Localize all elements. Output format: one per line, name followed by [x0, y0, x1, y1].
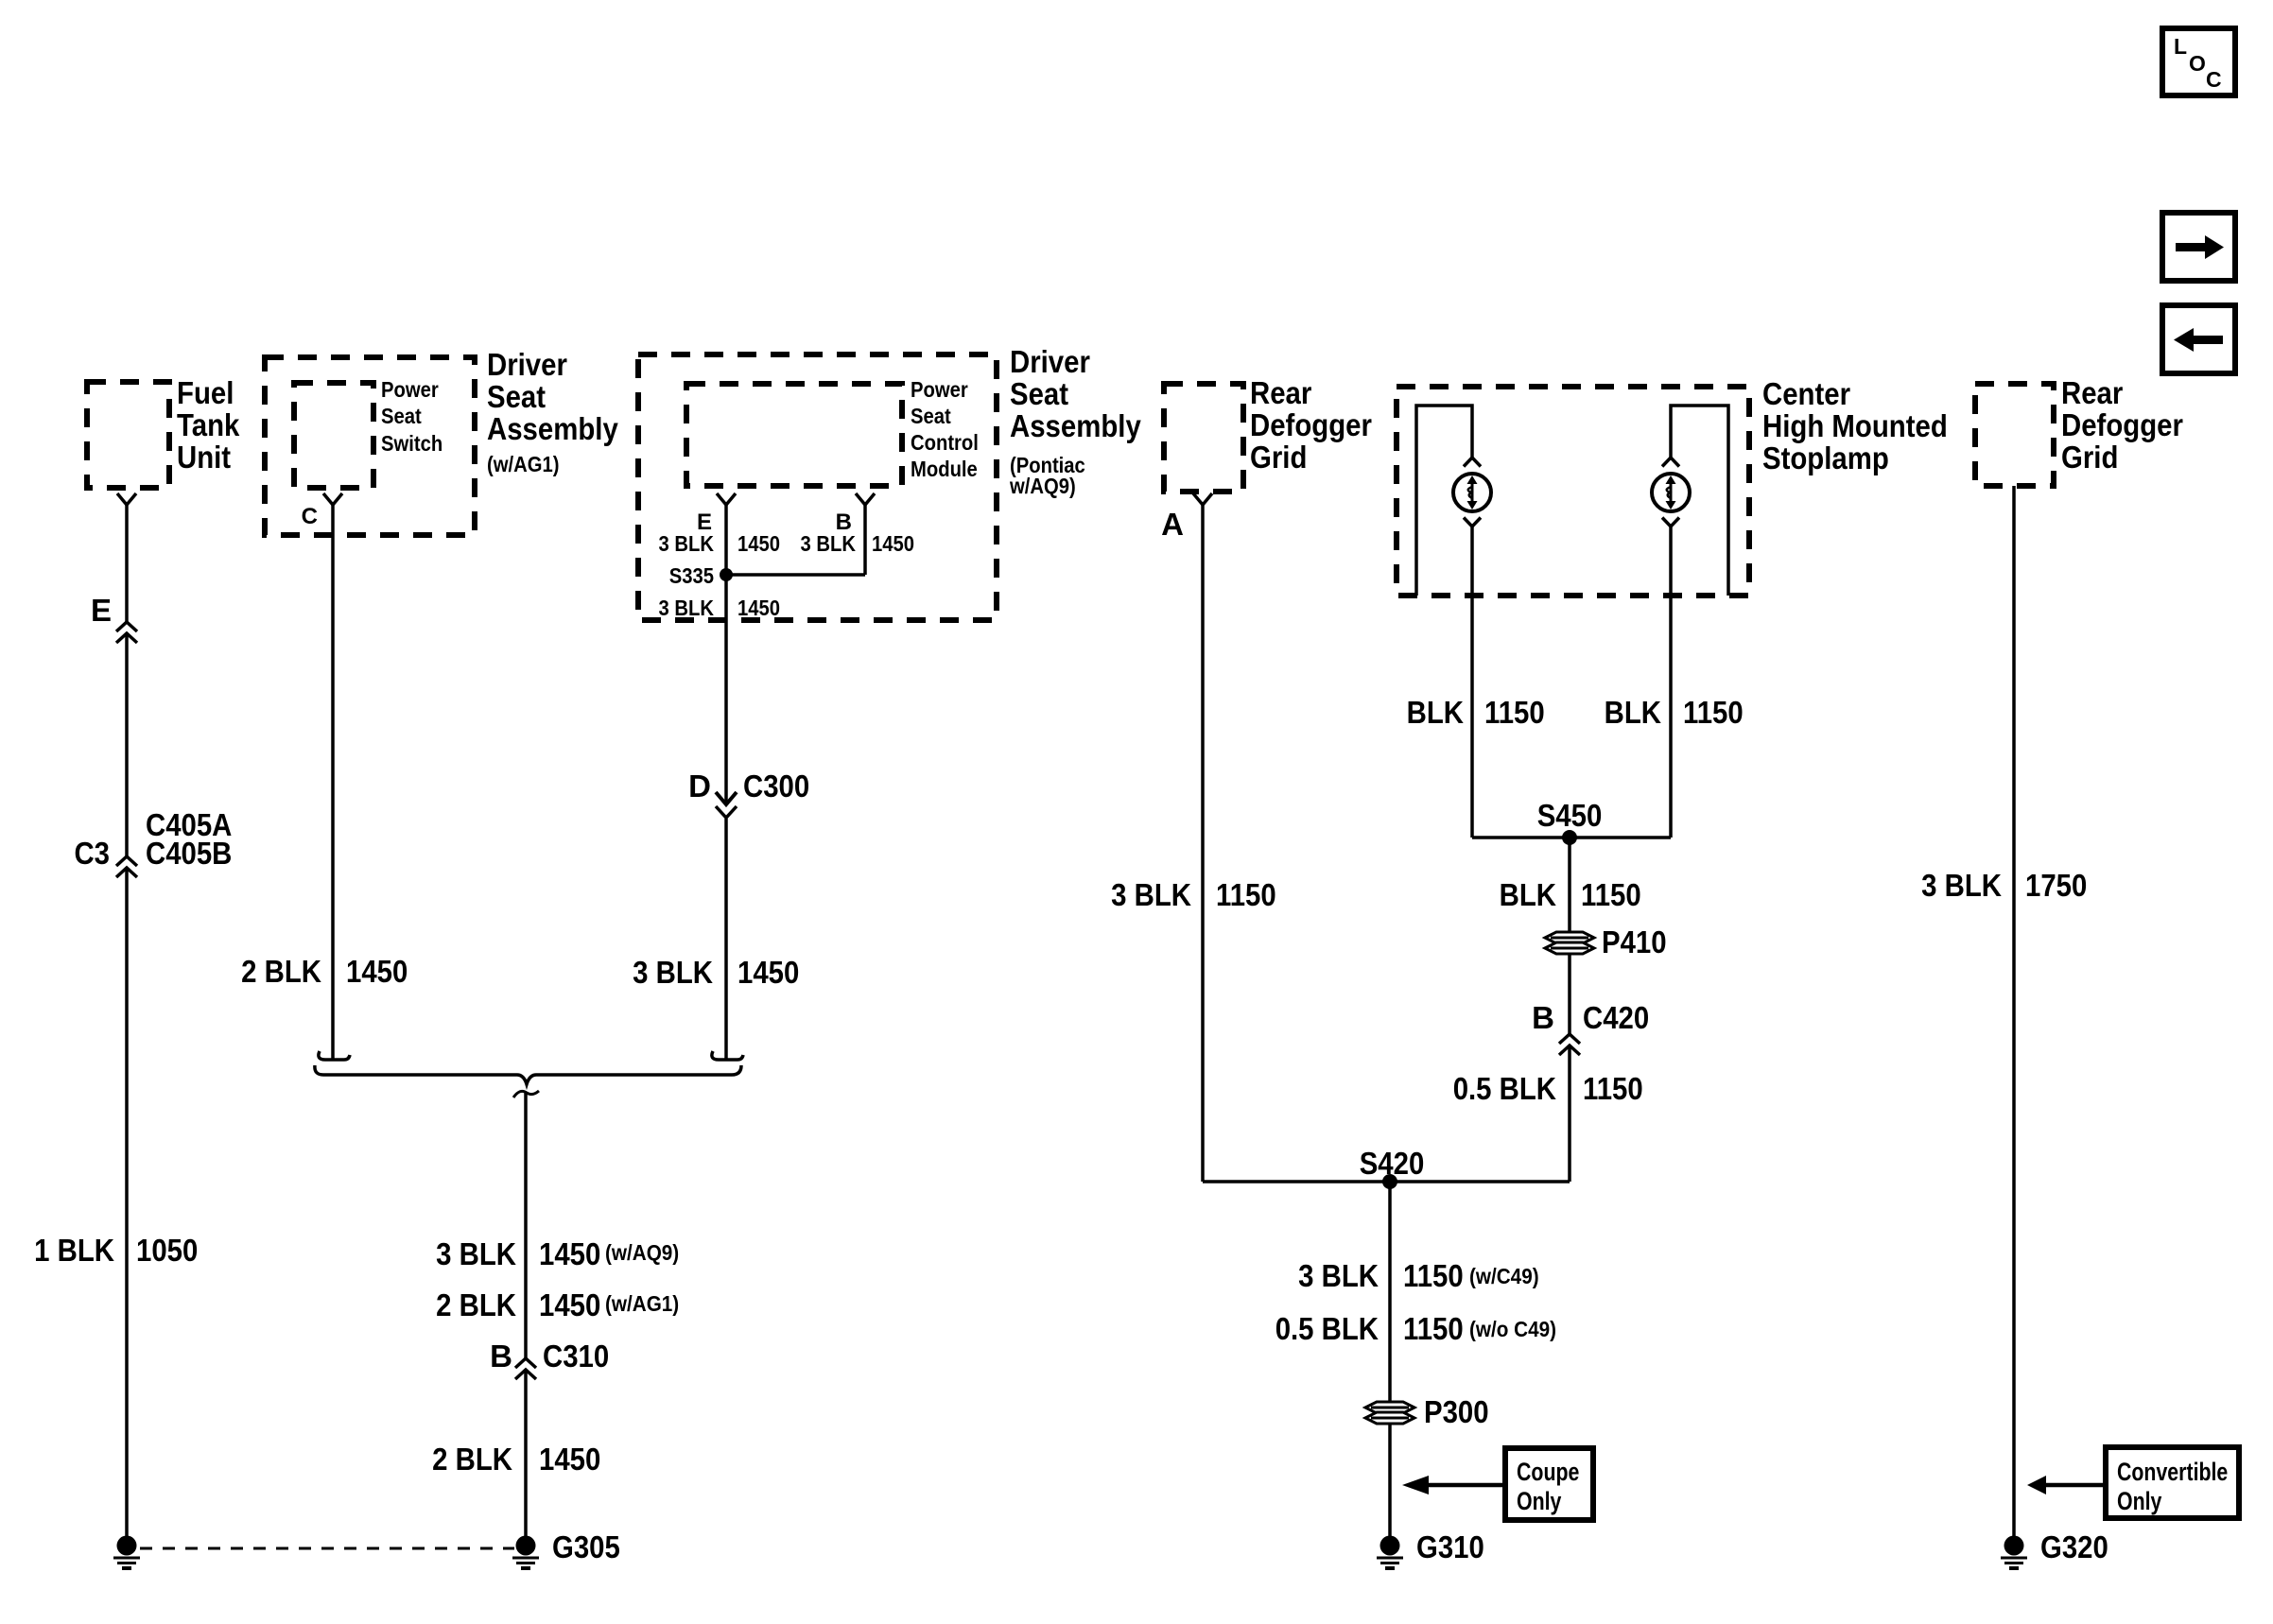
connector C300 (pin D) — [688, 769, 809, 818]
svg-text:(w/C49): (w/C49) — [1469, 1264, 1539, 1288]
svg-text:P300: P300 — [1424, 1394, 1489, 1429]
wire label 2 BLK 1450 (w/AG1) — [436, 1287, 679, 1322]
svg-text:C310: C310 — [543, 1339, 609, 1373]
svg-text:2 BLK: 2 BLK — [436, 1287, 516, 1322]
svg-text:P410: P410 — [1602, 924, 1667, 959]
wire end hook (switch leg) — [319, 1051, 350, 1060]
svg-text:S450: S450 — [1537, 798, 1603, 833]
svg-text:C300: C300 — [743, 769, 809, 803]
svg-text:O: O — [2189, 51, 2206, 76]
svg-text:1450: 1450 — [539, 1442, 600, 1477]
svg-text:Module: Module — [911, 457, 978, 481]
pin B of control module — [836, 493, 875, 535]
svg-text:B: B — [1532, 1000, 1554, 1035]
dashed ground tie wire — [140, 1547, 514, 1550]
wire S420 to P300 — [1388, 1182, 1392, 1402]
wire switch C to splice brace — [331, 505, 335, 1060]
svg-text:G305: G305 — [552, 1529, 620, 1564]
svg-text:(w/AG1): (w/AG1) — [487, 452, 560, 476]
pin E of fuel tank unit — [117, 493, 136, 505]
left stoplamp bulb — [1453, 458, 1491, 527]
wire label 2 BLK 1450 — [432, 1442, 600, 1477]
splice S335 — [669, 563, 733, 588]
svg-text:(w/AG1): (w/AG1) — [605, 1291, 679, 1316]
svg-text:1450: 1450 — [539, 1287, 600, 1322]
svg-text:1150: 1150 — [1403, 1311, 1464, 1346]
svg-text:Driver: Driver — [1010, 344, 1090, 379]
left-arrow legend box — [2162, 305, 2235, 373]
wire fuel tank to connector E — [125, 505, 129, 622]
LOC legend box — [2162, 28, 2235, 95]
wire P300 to G310 — [1388, 1424, 1392, 1537]
pin E of control module — [697, 493, 736, 535]
grommet P410 — [1545, 924, 1667, 959]
wire C420 to S420 — [1568, 1046, 1571, 1182]
splice S450 — [1472, 798, 1671, 845]
svg-text:3 BLK: 3 BLK — [633, 955, 713, 990]
svg-text:BLK: BLK — [1605, 695, 1662, 730]
wire label 3 BLK 1450 (below S335) — [659, 596, 781, 620]
right stoplamp bulb — [1652, 458, 1690, 527]
svg-text:Assembly: Assembly — [487, 411, 618, 446]
svg-text:3 BLK: 3 BLK — [1921, 868, 2002, 903]
wire label 2 BLK 1450 — [241, 954, 408, 989]
center high mounted stoplamp box — [1397, 376, 1948, 596]
svg-text:0.5 BLK: 0.5 BLK — [1275, 1311, 1379, 1346]
svg-text:Power: Power — [381, 377, 439, 402]
svg-text:1450: 1450 — [872, 531, 914, 556]
svg-text:BLK: BLK — [1407, 695, 1465, 730]
wire C405 to ground G305 left leg — [125, 868, 129, 1537]
wire left lamp to S450 — [1470, 527, 1474, 838]
svg-text:B: B — [490, 1339, 512, 1373]
svg-text:0.5 BLK: 0.5 BLK — [1453, 1071, 1556, 1106]
svg-text:1050: 1050 — [136, 1233, 198, 1268]
ground G305 — [512, 1529, 620, 1568]
svg-text:Defogger: Defogger — [2061, 407, 2183, 442]
svg-text:Defogger: Defogger — [1250, 407, 1372, 442]
svg-text:Seat: Seat — [487, 379, 546, 414]
svg-text:C3: C3 — [75, 836, 111, 871]
svg-text:(w/o C49): (w/o C49) — [1469, 1317, 1556, 1341]
svg-text:Switch: Switch — [381, 431, 442, 456]
svg-text:Assembly: Assembly — [1010, 408, 1141, 443]
svg-text:1 BLK: 1 BLK — [34, 1233, 114, 1268]
svg-text:Power: Power — [911, 377, 968, 402]
wire end hook (module leg) — [712, 1051, 743, 1060]
svg-text:3 BLK: 3 BLK — [659, 596, 715, 620]
wire S335 to C300 — [724, 575, 728, 804]
svg-text:Seat: Seat — [1010, 376, 1068, 411]
svg-text:3 BLK: 3 BLK — [1298, 1258, 1379, 1293]
svg-text:Grid: Grid — [2061, 440, 2118, 475]
svg-text:Driver: Driver — [487, 347, 567, 382]
wire right lamp to S450 — [1669, 527, 1673, 838]
wire C300 to splice brace — [724, 819, 728, 1060]
svg-text:S420: S420 — [1360, 1146, 1425, 1181]
convertible only arrow — [2027, 1476, 2106, 1494]
inline connector at E — [116, 622, 137, 631]
connector C405 (C3) — [75, 807, 233, 877]
svg-text:w/AQ9): w/AQ9) — [1009, 474, 1076, 498]
coupe only arrow — [1402, 1476, 1505, 1494]
svg-text:C: C — [2206, 67, 2222, 92]
svg-text:Seat: Seat — [381, 404, 422, 428]
svg-text:S335: S335 — [669, 563, 714, 588]
svg-text:E: E — [91, 593, 112, 628]
wire label 3 BLK 1450 (E leg) — [659, 531, 781, 556]
wire label BLK 1150 (right lamp) — [1605, 695, 1744, 730]
wire C310 to G305 — [524, 1371, 528, 1537]
wire E connector to C405 — [125, 633, 129, 856]
wire label 3 BLK 1450 — [633, 955, 799, 990]
svg-text:Rear: Rear — [1250, 375, 1311, 410]
svg-text:2 BLK: 2 BLK — [432, 1442, 512, 1477]
svg-text:Fuel: Fuel — [177, 375, 234, 410]
brace wire curl — [513, 1091, 539, 1097]
wire label BLK 1150 — [1500, 877, 1641, 912]
wire label 1 BLK 1050 — [34, 1233, 198, 1268]
svg-text:Convertible: Convertible — [2117, 1458, 2228, 1486]
svg-text:3 BLK: 3 BLK — [659, 531, 715, 556]
wire label 3 BLK 1450 (w/AQ9) — [436, 1236, 679, 1271]
wire B leg horizontal to S335 — [726, 573, 865, 577]
splice brace — [315, 1065, 741, 1084]
wire pin E to S335 — [724, 505, 728, 575]
svg-text:Only: Only — [2117, 1487, 2161, 1515]
svg-text:Grid: Grid — [1250, 440, 1307, 475]
wire label 0.5 BLK 1150 (w/o C49) — [1275, 1311, 1556, 1346]
svg-text:2 BLK: 2 BLK — [241, 954, 321, 989]
svg-text:C405B: C405B — [146, 836, 232, 871]
svg-text:3 BLK: 3 BLK — [1111, 877, 1191, 912]
wire label 3 BLK 1150 — [1111, 877, 1276, 912]
pin C of power seat switch — [302, 493, 342, 529]
svg-text:1150: 1150 — [1583, 1071, 1643, 1106]
fuel tank unit box — [87, 375, 240, 488]
power seat switch box — [294, 377, 442, 488]
rear defogger grid box (left) — [1164, 375, 1372, 492]
left lamp internal loop — [1416, 406, 1472, 596]
svg-text:Unit: Unit — [177, 440, 231, 475]
svg-text:Rear: Rear — [2061, 375, 2123, 410]
right lamp internal loop — [1671, 406, 1728, 596]
wire defogger A to S420 — [1201, 505, 1205, 1182]
svg-text:1450: 1450 — [737, 955, 799, 990]
svg-text:Tank: Tank — [177, 407, 240, 442]
svg-text:1150: 1150 — [1683, 695, 1744, 730]
svg-text:1450: 1450 — [737, 531, 780, 556]
wire label BLK 1150 (left lamp) — [1407, 695, 1545, 730]
svg-text:1450: 1450 — [539, 1236, 600, 1271]
svg-text:1450: 1450 — [346, 954, 408, 989]
ground G310 — [1377, 1529, 1484, 1568]
svg-text:BLK: BLK — [1500, 877, 1557, 912]
wire brace to C310 — [524, 1093, 528, 1358]
rear defogger grid box (right) — [1975, 375, 2183, 486]
svg-text:Coupe: Coupe — [1517, 1458, 1579, 1486]
svg-text:1150: 1150 — [1216, 877, 1276, 912]
driver seat assembly (w/AG1) box — [265, 347, 618, 535]
svg-text:3 BLK: 3 BLK — [801, 531, 857, 556]
ground G320 — [2001, 1529, 2108, 1568]
svg-text:1150: 1150 — [1581, 877, 1641, 912]
svg-text:3 BLK: 3 BLK — [436, 1236, 516, 1271]
svg-text:(w/AQ9): (w/AQ9) — [605, 1240, 679, 1265]
connector C310 (pin B) — [490, 1339, 609, 1379]
svg-text:Control: Control — [911, 430, 979, 455]
wire right defogger to G320 — [2012, 486, 2016, 1537]
wire S450 to P410 — [1568, 838, 1571, 932]
svg-text:G320: G320 — [2040, 1529, 2108, 1564]
svg-text:A: A — [1161, 507, 1184, 542]
wire label 3 BLK 1450 (B leg) — [801, 531, 915, 556]
wire P410 to C420 — [1568, 954, 1571, 1034]
power seat control module box — [686, 377, 979, 486]
svg-text:D: D — [688, 769, 711, 803]
driver seat assembly (Pontiac w/AQ9) box — [638, 344, 1141, 620]
svg-text:Center: Center — [1762, 376, 1850, 411]
svg-text:1450: 1450 — [737, 596, 780, 620]
ground (fuel tank leg of G305) — [113, 1536, 140, 1569]
svg-text:High Mounted: High Mounted — [1762, 408, 1948, 443]
right-arrow legend box — [2162, 213, 2235, 281]
wire label 3 BLK 1750 — [1921, 868, 2087, 903]
svg-text:C: C — [302, 504, 318, 529]
splice S420 — [1203, 1146, 1570, 1189]
pin A of rear defogger grid — [1161, 493, 1212, 542]
connector C420 (pin B) — [1532, 1000, 1649, 1055]
svg-text:L: L — [2174, 34, 2187, 59]
coupe only tag box — [1505, 1448, 1593, 1520]
svg-text:Only: Only — [1517, 1487, 1561, 1515]
svg-text:C420: C420 — [1583, 1000, 1649, 1035]
svg-text:1750: 1750 — [2025, 868, 2087, 903]
svg-text:G310: G310 — [1416, 1529, 1484, 1564]
svg-text:1150: 1150 — [1484, 695, 1545, 730]
svg-text:Stoplamp: Stoplamp — [1762, 441, 1889, 475]
wire label 3 BLK 1150 (w/C49) — [1298, 1258, 1539, 1293]
svg-text:1150: 1150 — [1403, 1258, 1464, 1293]
svg-text:Seat: Seat — [911, 404, 951, 428]
wire label 0.5 BLK 1150 — [1453, 1071, 1643, 1106]
wire pin B leg — [863, 505, 867, 575]
convertible only tag box — [2106, 1447, 2239, 1518]
grommet P300 — [1365, 1394, 1489, 1429]
